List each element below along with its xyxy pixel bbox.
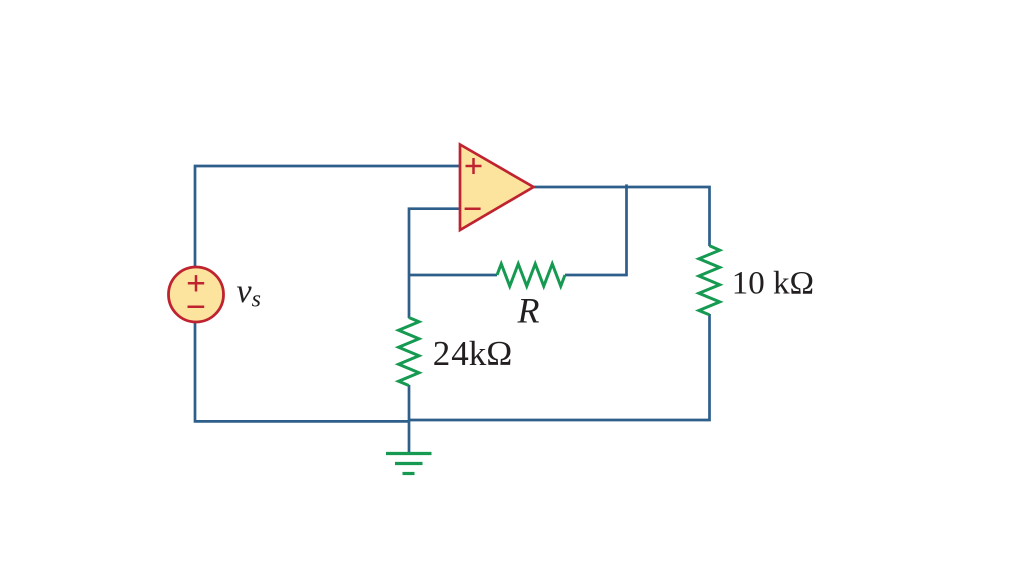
resistor R (feedback, horizontal zigzag) <box>497 264 565 286</box>
source - marker <box>188 305 205 308</box>
op-amp - input marker <box>465 207 481 210</box>
wire: left vertical below source to bottom wire <box>195 322 409 421</box>
svg-text:10 kΩ: 10 kΩ <box>732 265 814 301</box>
wire: bottom wire to right vertical <box>409 314 710 420</box>
voltage source vs <box>169 267 224 322</box>
wire: feedback branch right segment from R up to output node <box>565 184 627 275</box>
wire: feedback branch left segment to resistor R <box>409 274 497 277</box>
svg-text:24kΩ: 24kΩ <box>433 334 513 373</box>
wire: inverting input from node to op-amp <box>409 209 460 318</box>
wire: 24k resistor bottom to ground stem <box>408 385 411 454</box>
svg-text:R: R <box>517 291 540 331</box>
ground <box>386 454 432 474</box>
op-amp U1 <box>460 145 534 231</box>
op-amp + input marker <box>466 158 482 174</box>
wire: op-amp output to right vertical down to 10k resistor <box>534 187 710 246</box>
resistor 10 kOhm (right vertical zigzag) <box>699 246 720 315</box>
resistor 24 kOhm (vertical zigzag) <box>399 318 419 386</box>
source + marker <box>188 275 204 291</box>
wire: top wire from source to op-amp + input <box>195 166 460 268</box>
svg-text:vs: vs <box>237 273 261 313</box>
